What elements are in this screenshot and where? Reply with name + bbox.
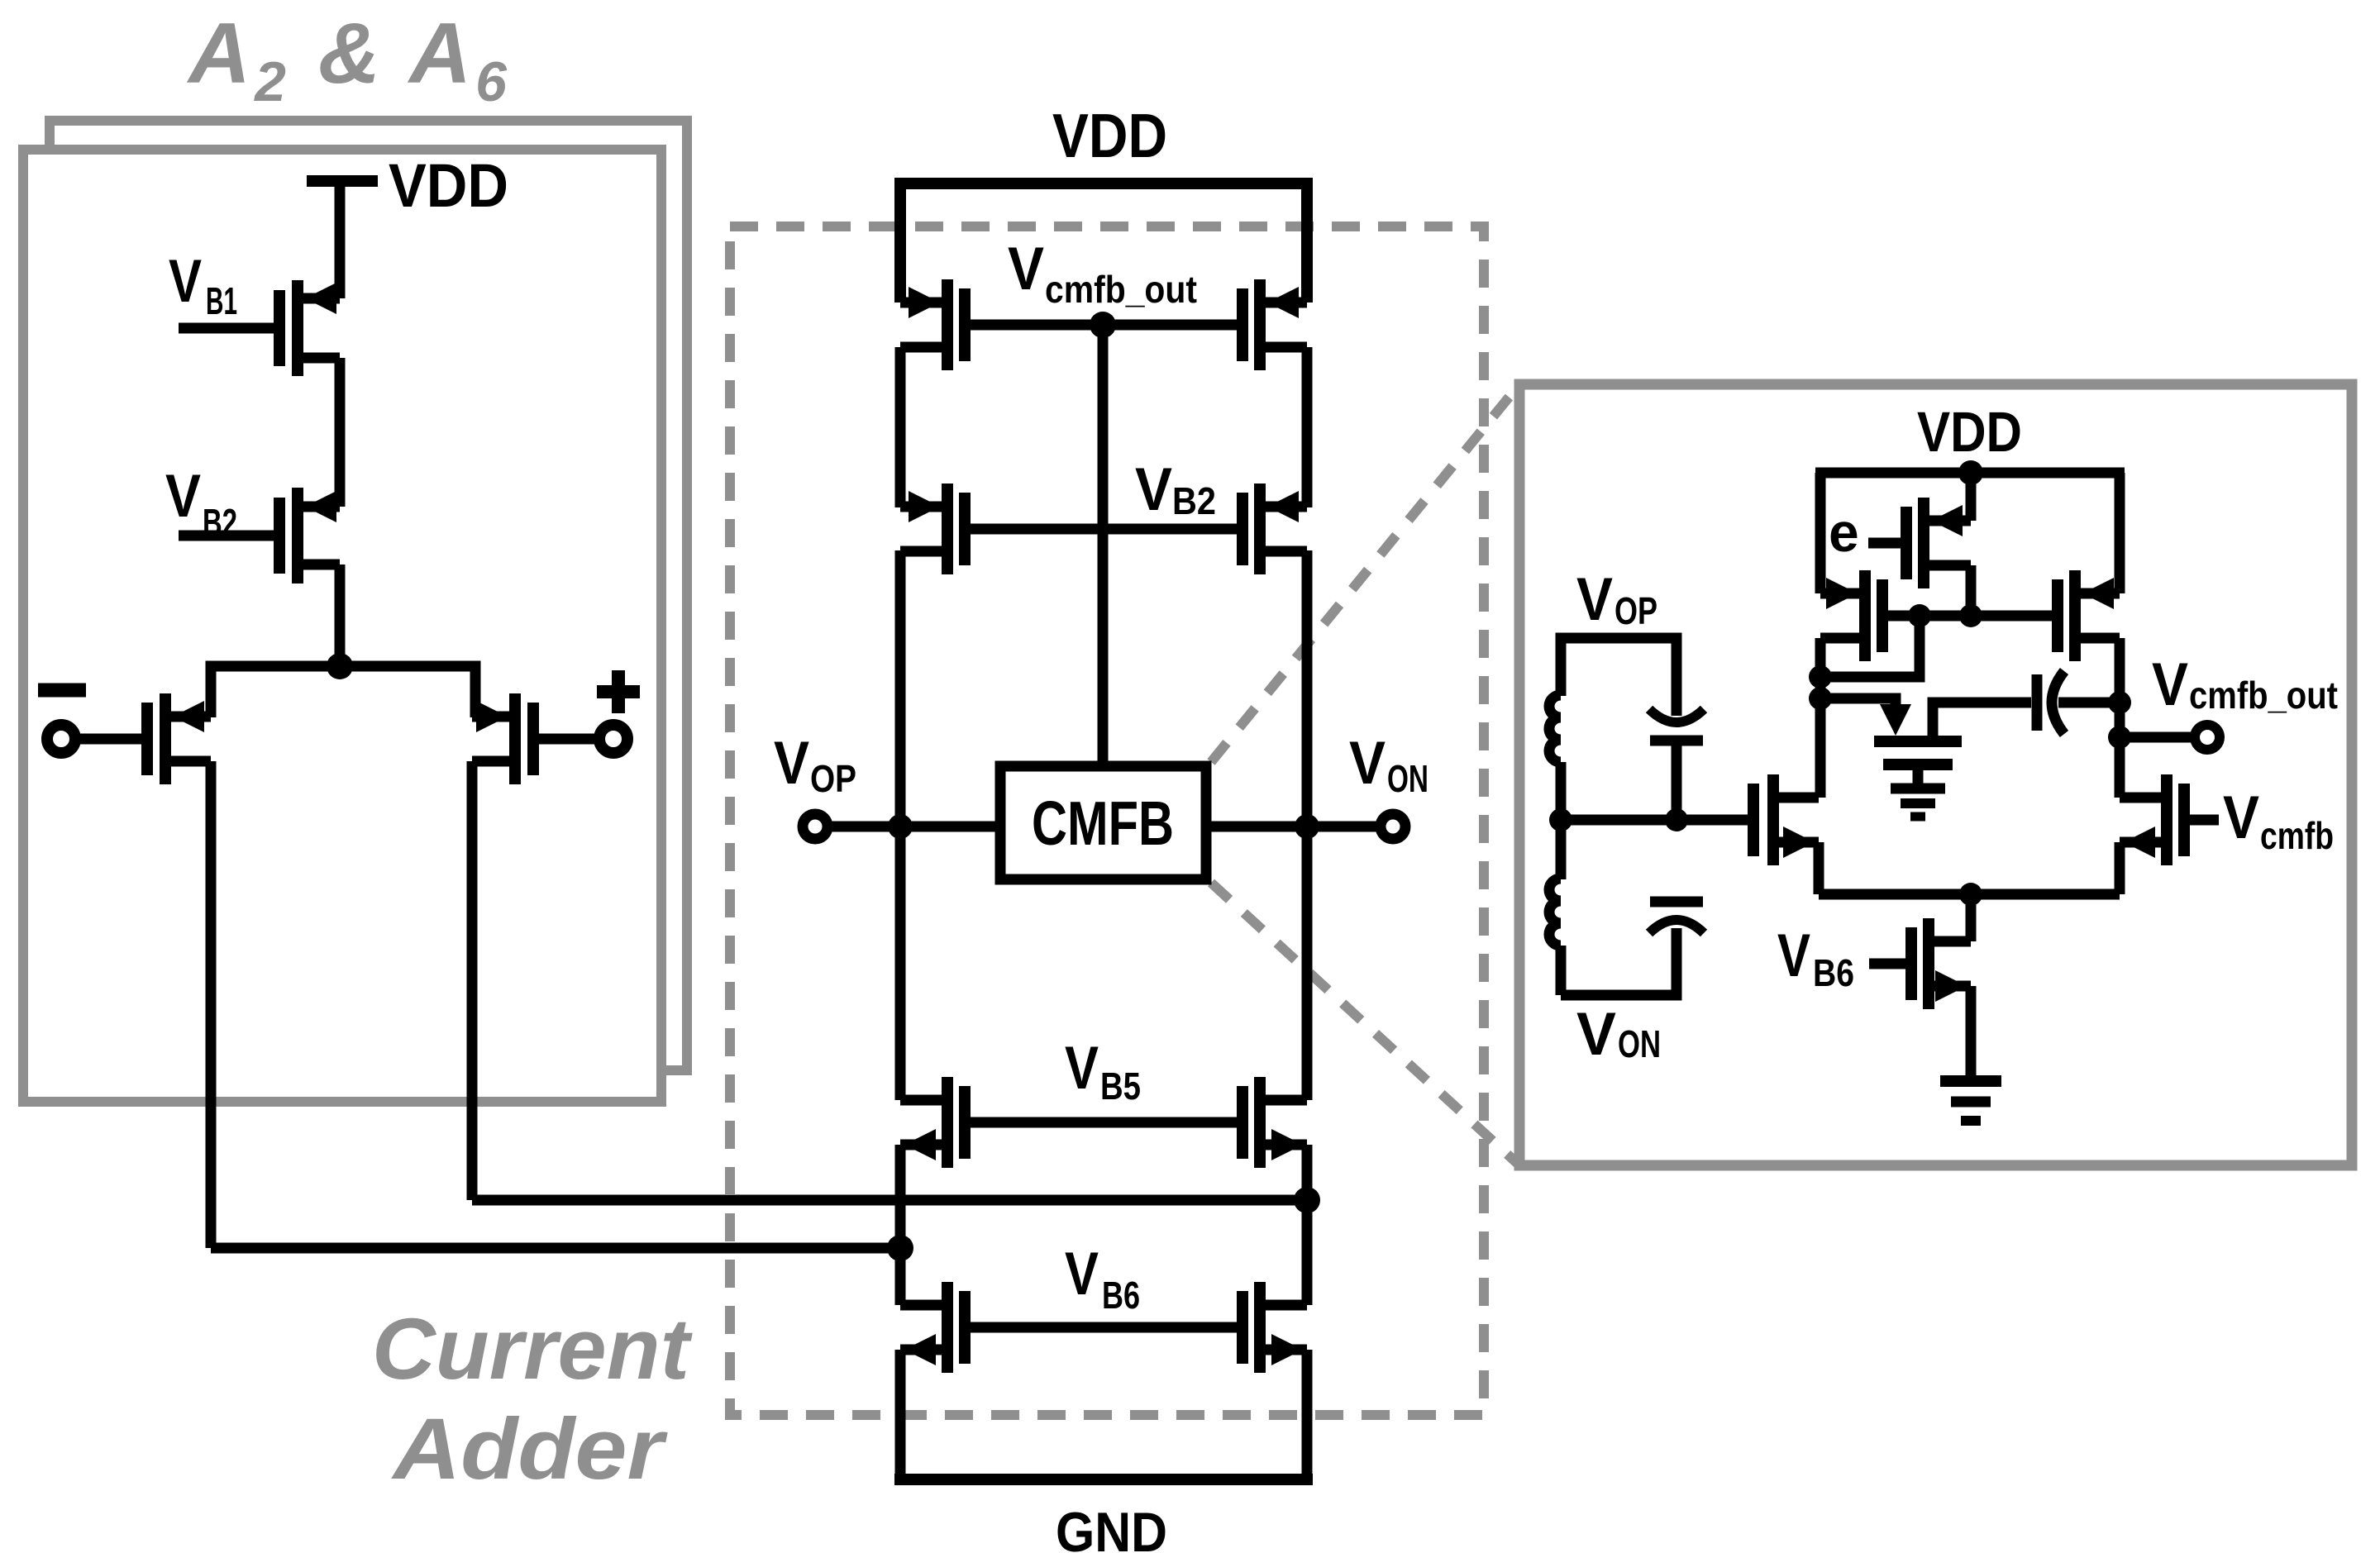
wire mid node to R2 <box>1556 820 1567 879</box>
svg-text:V: V <box>2152 651 2188 718</box>
wire VB6 gate line <box>971 1322 1237 1333</box>
label VB2 (current adder) <box>1135 456 1216 523</box>
node tail (detail) <box>1959 883 1982 906</box>
wire Vcmfb_out to CMFB block <box>1098 325 1109 766</box>
detail right rail upper <box>2115 473 2125 593</box>
resistor R2 <box>1549 879 1561 946</box>
node comp cap right <box>2108 691 2131 714</box>
VDD supply bar (left block) <box>307 175 378 187</box>
node mirror gate 1 <box>1908 604 1931 627</box>
left rail segment 4 <box>895 1350 906 1479</box>
wire VB2 gate line <box>971 524 1237 535</box>
transistor M18 NMOS input Vcmfb <box>2120 774 2184 865</box>
svg-text:V: V <box>1135 456 1172 523</box>
capacitor C3 straight plate <box>2032 674 2043 731</box>
wire VB2 gate lead <box>179 531 276 541</box>
wire MOS cap node to comp cap <box>1933 703 2031 741</box>
port Vcmfb_out <box>2195 725 2220 750</box>
wire VB1 gate lead <box>179 323 276 334</box>
capacitor C2 straight plate <box>1650 897 1703 908</box>
resistor R1 <box>1549 695 1561 762</box>
svg-text:A2 & A6: A2 & A6 <box>186 6 511 113</box>
transistor M5 PMOS mirror left <box>900 279 965 370</box>
label VB5 <box>1065 1035 1141 1108</box>
wire Vcmfb_out gate line <box>971 320 1237 331</box>
node tail junction <box>327 653 353 679</box>
transistor M10 NMOS cascode VB5 right <box>1242 1077 1307 1168</box>
label plus input <box>597 685 640 698</box>
label VB2 (left block) <box>165 463 237 544</box>
wire C1 to mid node <box>1672 741 1682 827</box>
capacitor C3 curved plate <box>2052 671 2064 734</box>
left rail segment 2 <box>895 550 906 1100</box>
svg-text:B1: B1 <box>206 279 237 322</box>
port minus input <box>47 725 75 753</box>
transistor M14 PMOS mirror diode <box>1820 570 1882 661</box>
wire stage1 out to MOS cap <box>1820 698 1896 709</box>
port plus input <box>599 725 627 753</box>
wire VB6 gate lead (detail) <box>1869 959 1905 969</box>
amplifier A6 box (back page) <box>50 121 687 1070</box>
svg-text:V: V <box>169 248 202 315</box>
wire M13 source to VDD <box>1966 473 1977 521</box>
MOS capacitor M16 plate <box>1874 736 1962 747</box>
MOS cap drain arrow <box>1880 704 1911 736</box>
sense network top wire <box>1561 638 1676 716</box>
wire diode connection <box>1820 616 1920 677</box>
transistor M17 NMOS input left <box>1753 774 1819 865</box>
wire M3 drain down <box>206 761 217 1248</box>
svg-text:V: V <box>1576 566 1613 633</box>
left rail segment 3 <box>895 1145 906 1305</box>
label VOP <box>774 730 856 800</box>
port VOP <box>803 814 828 839</box>
capacitor C2 curved plate <box>1649 920 1704 933</box>
transistor M8 PMOS cascode VB2 right <box>1242 484 1307 574</box>
CMFB block <box>1000 766 1206 879</box>
svg-text:VDD: VDD <box>1052 101 1167 170</box>
wire M18 source down <box>2115 842 2125 894</box>
right rail segment 3 <box>1302 1145 1313 1305</box>
svg-text:B2: B2 <box>1172 479 1216 522</box>
node feedback right <box>1294 1187 1320 1213</box>
svg-text:B6: B6 <box>1813 951 1854 994</box>
transistor M12 NMOS VB6 right <box>1242 1282 1307 1373</box>
node mirror gate 2 <box>1959 604 1982 627</box>
wire M13 drain to mirror gates <box>1966 565 1977 616</box>
node diode drain <box>1809 665 1832 688</box>
label VON (detail) <box>1576 1001 1661 1068</box>
svg-text:cmfb_out: cmfb_out <box>1045 268 1197 311</box>
node feedback left <box>887 1235 913 1261</box>
wire M4 drain down <box>467 761 478 1200</box>
port VON <box>1381 814 1405 839</box>
wire feedback right (to right rail) <box>472 1195 1309 1206</box>
label Vcmfb_out (current adder) <box>1008 236 1197 311</box>
node VOP rail junction <box>888 814 913 839</box>
node detail VDD <box>1958 460 1983 485</box>
label VOP (detail) <box>1576 566 1657 633</box>
svg-text:V: V <box>1576 1001 1616 1068</box>
label Vcmfb_out (detail) <box>2152 651 2338 718</box>
node VON rail junction <box>1295 814 1319 839</box>
svg-text:V: V <box>1777 922 1810 989</box>
svg-text:cmfb_out: cmfb_out <box>2189 674 2338 717</box>
label minus input <box>38 684 86 698</box>
detail VDD rail <box>1815 468 2125 479</box>
wire minus port to M3 gate <box>78 734 142 745</box>
label VON <box>1349 730 1428 800</box>
node Vcmfb_out junction <box>1090 312 1116 338</box>
wire M19 source to ground <box>1966 986 1977 1076</box>
MOS capacitor M16 gate plate <box>1883 759 1953 770</box>
wire tail bar <box>211 666 475 717</box>
svg-text:e: e <box>1829 502 1859 563</box>
wire M18 gate lead <box>2190 815 2219 826</box>
svg-text:OP: OP <box>810 757 856 800</box>
detail right rail lower <box>2115 638 2125 798</box>
wire VDD to M1 source <box>335 176 346 298</box>
node sense right <box>1665 808 1688 831</box>
svg-text:ON: ON <box>1618 1022 1661 1065</box>
dashed leader top (CMFB to detail box) <box>1211 384 1519 762</box>
capacitor C1 straight plate <box>1650 736 1703 746</box>
svg-text:ON: ON <box>1387 757 1428 800</box>
wire e gate lead <box>1868 538 1901 549</box>
detail left rail lower <box>1815 638 1826 798</box>
transistor M9 NMOS cascode VB5 left <box>900 1077 965 1168</box>
wire to Vcmfb_out port <box>2120 732 2192 743</box>
wire VOP to CMFB <box>830 822 1000 832</box>
wire feedback left (to left rail) <box>211 1243 903 1254</box>
GND rail <box>894 1474 1313 1485</box>
VDD rail (current adder) <box>900 183 1307 303</box>
svg-text:cmfb: cmfb <box>2260 814 2334 857</box>
transistor M7 PMOS cascode VB2 left <box>900 484 965 574</box>
wire M17 source down <box>1814 842 1824 894</box>
MOS cap stem <box>1913 765 1924 784</box>
CMFB detail box <box>1519 384 2352 1165</box>
svg-text:Adder: Adder <box>390 1401 668 1498</box>
svg-text:V: V <box>1349 730 1386 797</box>
wire tail to M19 drain <box>1966 894 1977 941</box>
svg-text:VDD: VDD <box>1917 400 2022 464</box>
dashed leader bottom (CMFB to detail box) <box>1211 883 1519 1165</box>
svg-text:GND: GND <box>1056 1501 1167 1553</box>
label VB1 <box>169 248 237 322</box>
node sense left <box>1549 808 1572 831</box>
transistor M2 PMOS VB2 <box>279 488 340 584</box>
wire CMFB to VON <box>1206 822 1378 832</box>
ground symbol (tail) <box>1940 1075 2001 1087</box>
wire plus port to M4 gate <box>539 734 597 745</box>
left rail segment 1 <box>895 347 906 507</box>
svg-text:VDD: VDD <box>389 151 508 220</box>
node Vcmfb_out takeoff <box>2108 726 2131 749</box>
node stage1 output <box>1809 687 1832 710</box>
transistor M15 PMOS mirror out <box>2058 570 2120 661</box>
label VB6 (detail) <box>1777 922 1854 994</box>
svg-text:V: V <box>1065 1241 1099 1308</box>
svg-text:V: V <box>165 463 201 530</box>
label Vcmfb <box>2223 784 2334 857</box>
wire VB5 gate line <box>971 1117 1237 1128</box>
sense mid wire to amp input <box>1561 815 1748 826</box>
wire R1 to mid node <box>1556 762 1567 827</box>
transistor M1 PMOS VB1 <box>279 280 340 376</box>
svg-text:V: V <box>774 730 809 797</box>
right rail segment 1 <box>1302 347 1313 507</box>
wire tail <box>1819 889 2120 900</box>
svg-text:B5: B5 <box>1100 1065 1141 1108</box>
wire M2 drain to tail node <box>335 565 346 666</box>
svg-text:CMFB: CMFB <box>1032 788 1174 858</box>
wire mirror gate line <box>1888 611 2052 622</box>
capacitor C1 curved plate <box>1649 709 1704 722</box>
svg-text:OP: OP <box>1614 589 1657 632</box>
dashed box current adder <box>730 226 1484 1415</box>
svg-text:V: V <box>1008 236 1044 303</box>
sense network bottom wire <box>1561 928 1676 995</box>
transistor M3 PMOS input minus <box>147 693 211 784</box>
svg-text:B6: B6 <box>1102 1274 1140 1317</box>
svg-text:V: V <box>2223 784 2259 851</box>
right rail segment 2 <box>1302 550 1313 1100</box>
wire M1 drain to M2 source <box>335 358 346 507</box>
wire C3 to right rail <box>2058 698 2120 708</box>
wire R2 to bottom <box>1556 946 1567 995</box>
amplifier A2 box (front page) <box>23 150 661 1102</box>
svg-text:Current: Current <box>372 1301 693 1398</box>
svg-text:V: V <box>1065 1035 1099 1102</box>
transistor M6 PMOS mirror right <box>1242 279 1307 370</box>
transistor M11 NMOS VB6 left <box>900 1282 965 1373</box>
detail left rail upper <box>1815 473 1826 593</box>
ground symbol (MOS cap) <box>1891 784 1945 794</box>
transistor M19 NMOS tail VB6 <box>1911 918 1971 1009</box>
transistor M4 PMOS input plus <box>472 693 533 784</box>
transistor M13 PMOS enable e <box>1906 498 1971 588</box>
label VB6 (current adder) <box>1065 1241 1140 1317</box>
right rail segment 4 <box>1302 1350 1313 1479</box>
